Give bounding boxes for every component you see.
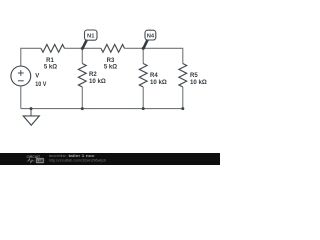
junction dot R2 bottom <box>81 107 84 110</box>
svg-text:N4: N4 <box>147 34 155 40</box>
svg-text:10 kΩ: 10 kΩ <box>89 79 106 85</box>
junction dot ground <box>30 107 33 110</box>
resistor R3 <box>101 44 125 52</box>
junction dot R4 bottom <box>142 107 145 110</box>
svg-text:10 kΩ: 10 kΩ <box>150 80 167 86</box>
svg-text:N1: N1 <box>87 34 95 40</box>
junction dot R5 bottom <box>181 107 184 110</box>
svg-text:http://circuitlab.com/c62wn296: http://circuitlab.com/c62wn296wfy3/ <box>49 159 106 163</box>
wire N4 to R5 (top-right corner) <box>143 48 183 63</box>
wire N1 to R3 <box>82 47 101 49</box>
bottom rail wire <box>21 108 183 110</box>
junction dot N4 <box>142 47 145 50</box>
svg-text:R2: R2 <box>89 72 97 78</box>
CircuitLab logo LAB box <box>36 158 44 163</box>
wire R2 to bottom rail <box>81 87 83 109</box>
node N4 flag pointer <box>143 40 147 49</box>
wire N4 to R4 <box>142 48 144 63</box>
wire R3 to N4 <box>125 47 144 49</box>
svg-text:LAB: LAB <box>37 159 44 163</box>
node N4 label box <box>145 30 156 40</box>
resistor R5 <box>179 64 187 88</box>
svg-text:R3: R3 <box>107 58 115 64</box>
svg-text:R4: R4 <box>150 73 158 79</box>
ground <box>23 109 39 126</box>
wire R1 to N1 <box>65 47 83 49</box>
svg-text:R1: R1 <box>46 58 54 64</box>
node N1 flag pointer <box>82 40 87 49</box>
wire N1 to R2 <box>81 48 83 63</box>
wire V+ to R1 (top-left corner) <box>21 48 41 66</box>
svg-text:10 V: 10 V <box>35 82 46 88</box>
wire R4 to bottom rail <box>142 87 144 109</box>
wire V- to bottom rail <box>20 86 22 109</box>
voltage source V1 <box>11 66 31 86</box>
node N1 label box <box>85 30 98 40</box>
footer black bar <box>0 153 220 165</box>
svg-text:10 kΩ: 10 kΩ <box>190 80 207 86</box>
wire R5 to bottom rail <box>182 87 184 109</box>
svg-text:5 kΩ: 5 kΩ <box>104 65 117 71</box>
svg-text:R5: R5 <box>190 73 198 79</box>
junction dot N1 <box>81 47 84 50</box>
svg-text:5 kΩ: 5 kΩ <box>44 65 57 71</box>
svg-text:V: V <box>35 74 39 80</box>
resistor R2 <box>78 64 86 88</box>
svg-text:laura.beltran : taller 1 nov: laura.beltran : taller 1 nov <box>49 154 95 158</box>
CircuitLab logo waveform <box>27 159 35 163</box>
resistor R1 <box>41 44 65 52</box>
resistor R4 <box>139 64 147 88</box>
